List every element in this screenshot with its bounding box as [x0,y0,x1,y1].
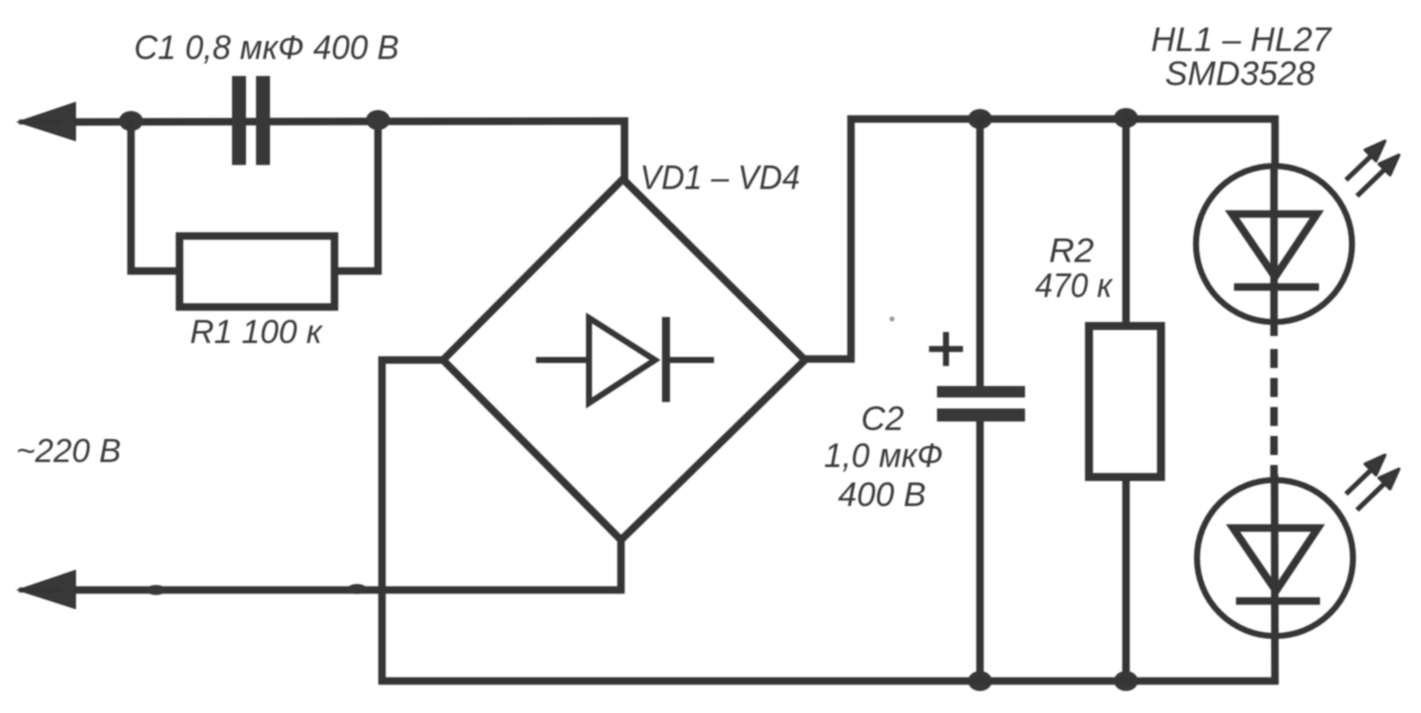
wire arrow shaft tail bottom [19,588,62,593]
wire bridge bottom vertex down to AC line [617,540,625,593]
capacitor C2 plus sign [929,332,963,366]
wire bridge right vertex up to top rail [805,119,980,359]
resistor R2 [1089,326,1161,477]
wire top rail J4 to LED branch [1126,119,1275,167]
svg-text:HL1 – HL27: HL1 – HL27 [1151,21,1332,59]
node junction dot J2 [366,110,390,130]
wire down from J1 to R1 [131,121,180,271]
arrow left-top AC terminal [19,103,75,140]
svg-text:R1 100 к: R1 100 к [190,313,323,350]
resistor R1 [180,236,335,307]
wire R1 right to J2 [334,121,378,271]
LED HL27 emission arrows [1346,455,1399,510]
node scan speck [890,317,895,322]
node junction dot J3 [968,109,992,129]
capacitor C2 [937,386,1025,422]
wire arrow shaft tail [19,120,62,125]
diode bridge VD1-VD4 [443,179,805,540]
svg-text:~220 В: ~220 В [16,432,121,469]
node junction dot J6 [1114,671,1138,691]
node small blob bottom wire 1 [146,585,166,595]
svg-text:C2: C2 [861,400,904,438]
svg-text:1,0 мкФ: 1,0 мкФ [824,437,943,475]
wire top rail J3 to J4 [980,115,1126,123]
capacitor C1 [232,76,270,165]
node junction dot J4 [1114,108,1138,128]
wire dashed between HL1 and HL27 [1270,349,1278,478]
svg-text:470 к: 470 к [1035,267,1114,305]
node junction dot J1 [119,111,143,131]
node junction dot J5 [968,671,992,691]
wire R2 branch lower [1122,477,1130,681]
wire C2 branch lower [976,421,984,681]
LED HL1 [1196,166,1352,336]
svg-text:VD1 – VD4: VD1 – VD4 [640,159,800,197]
diode symbol inside bridge [536,317,714,403]
arrow left-bottom AC terminal [19,571,75,608]
svg-text:400 В: 400 В [838,476,926,514]
svg-text:C1 0,8 мкФ 400 В: C1 0,8 мкФ 400 В [134,29,399,67]
svg-text:SMD3528: SMD3528 [1165,55,1315,93]
node small blob bottom wire 2 [347,584,367,594]
LED HL27 [1197,474,1353,684]
wire bottom DC rail [379,677,1279,685]
wire bottom AC line [60,586,625,594]
wire top AC line [60,121,625,182]
wire C2 branch upper [976,119,984,386]
wire bridge left vertex down [382,360,443,684]
wire R2 branch upper [1122,119,1130,326]
svg-text:R2: R2 [1049,232,1094,270]
LED HL1 emission arrows [1346,141,1399,196]
